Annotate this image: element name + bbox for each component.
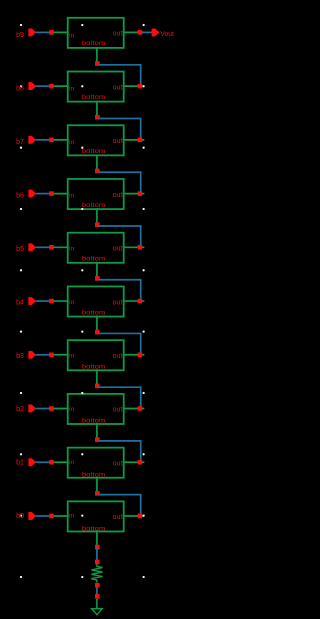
svg-text:b1: b1 xyxy=(16,459,24,467)
junction U8.out xyxy=(138,406,143,411)
wire b8 to U2.in xyxy=(36,85,52,87)
wire U10.bottom to resistor R1 xyxy=(96,547,98,562)
lead U1.in xyxy=(52,31,69,33)
svg-text:in: in xyxy=(69,139,75,146)
svg-text:b4: b4 xyxy=(16,298,24,306)
input port arrow b4 xyxy=(29,297,36,304)
subcircuit block U4 (ladder cell) xyxy=(68,179,124,209)
junction U9.in xyxy=(49,460,54,465)
lead U7.in xyxy=(52,354,69,356)
junction U2.in xyxy=(49,84,54,89)
lead U9.bottom xyxy=(96,477,98,493)
lead U4.out xyxy=(123,193,145,195)
wire b3 to U7.in xyxy=(36,354,52,356)
junction U4.in xyxy=(49,191,54,196)
lead U6.bottom xyxy=(96,316,98,332)
lead U2.bottom xyxy=(96,101,98,117)
lead U5.bottom xyxy=(96,262,98,278)
lead U7.out xyxy=(123,354,145,356)
junction U4.bottom xyxy=(95,222,100,227)
svg-text:in: in xyxy=(69,86,75,93)
svg-text:bottom: bottom xyxy=(82,202,106,209)
lead U1.bottom xyxy=(96,47,98,63)
lead U5.in xyxy=(52,246,69,248)
lead U3.in xyxy=(52,139,69,141)
lead U8.bottom xyxy=(96,423,98,439)
svg-text:in: in xyxy=(69,32,75,39)
junction U10.in xyxy=(49,514,54,519)
junction U7.bottom xyxy=(95,384,100,389)
junction U6.bottom xyxy=(95,330,100,335)
output port arrow Vout xyxy=(152,29,159,36)
svg-text:in: in xyxy=(69,246,75,253)
junction R1.top xyxy=(95,560,100,565)
junction U7.out xyxy=(138,352,143,357)
svg-text:bottom: bottom xyxy=(82,471,106,478)
input port arrow b6 xyxy=(29,190,36,197)
junction U1.in xyxy=(49,30,54,35)
input port arrow b1 xyxy=(29,459,36,466)
junction U6.out xyxy=(138,299,143,304)
subcircuit block U5 (ladder cell) xyxy=(68,233,124,263)
svg-text:out: out xyxy=(113,299,123,306)
junction U6.in xyxy=(49,299,54,304)
svg-text:b7: b7 xyxy=(16,138,24,146)
svg-text:in: in xyxy=(69,192,75,199)
svg-text:bottom: bottom xyxy=(82,417,106,424)
lead U4.in xyxy=(52,193,69,195)
lead U6.in xyxy=(52,300,69,302)
wire b2 to U8.in xyxy=(36,408,52,410)
subcircuit block U3 (ladder cell) xyxy=(68,125,124,155)
svg-text:in: in xyxy=(69,299,75,306)
svg-text:in: in xyxy=(69,513,75,520)
lead U10.out xyxy=(123,515,145,517)
svg-text:bottom: bottom xyxy=(82,94,106,101)
svg-text:b3: b3 xyxy=(16,352,24,360)
junction U9.bottom xyxy=(95,491,100,496)
wire U4.bottom to U5.out xyxy=(98,226,140,247)
svg-text:out: out xyxy=(113,138,123,145)
svg-text:b6: b6 xyxy=(16,191,24,199)
wire b1 to U9.in xyxy=(36,461,52,463)
svg-text:out: out xyxy=(113,407,123,414)
junction U8.bottom xyxy=(95,437,100,442)
subcircuit block U9 (ladder cell) xyxy=(68,448,124,478)
lead U2.in xyxy=(52,85,69,87)
junction U3.bottom xyxy=(95,169,100,174)
wire b4 to U6.in xyxy=(36,300,52,302)
svg-text:in: in xyxy=(69,406,75,413)
svg-text:out: out xyxy=(113,84,123,91)
wire b0 to U10.in xyxy=(36,515,52,517)
junction U7.in xyxy=(49,352,54,357)
lead U3.bottom xyxy=(96,154,98,170)
junction U10.out xyxy=(138,514,143,519)
svg-text:bottom: bottom xyxy=(82,256,106,263)
input port arrow b0 xyxy=(29,512,36,519)
svg-text:bottom: bottom xyxy=(82,364,106,371)
subcircuit block U1 (ladder cell) xyxy=(68,18,124,48)
input port arrow b5 xyxy=(29,244,36,251)
junction U5.out xyxy=(138,245,143,250)
wire U1.out to Vout port xyxy=(142,31,152,33)
wire U8.bottom to U9.out xyxy=(98,441,140,462)
svg-text:b9: b9 xyxy=(16,31,24,39)
ground xyxy=(92,599,102,615)
svg-text:out: out xyxy=(113,192,123,199)
wire b5 to U5.in xyxy=(36,246,52,248)
svg-text:bottom: bottom xyxy=(82,40,106,47)
lead U8.out xyxy=(123,408,145,410)
lead U3.out xyxy=(123,139,145,141)
svg-text:b0: b0 xyxy=(16,512,24,520)
input port arrow b2 xyxy=(29,405,36,412)
wire U6.bottom to U7.out xyxy=(98,333,140,354)
subcircuit block U6 (ladder cell) xyxy=(68,286,124,316)
wire U5.bottom to U6.out xyxy=(98,280,140,301)
svg-text:bottom: bottom xyxy=(82,525,106,532)
lead U10.in xyxy=(52,515,69,517)
svg-text:out: out xyxy=(113,514,123,521)
wire b9 to U1.in xyxy=(36,31,52,33)
lead U10.bottom xyxy=(96,530,98,546)
lead U6.out xyxy=(123,300,145,302)
lead U1.out xyxy=(123,31,145,33)
wire U1.bottom to U2.out xyxy=(98,65,140,86)
junction U5.bottom xyxy=(95,276,100,281)
lead U8.in xyxy=(52,408,69,410)
junction U3.in xyxy=(49,138,54,143)
junction ground xyxy=(95,594,100,599)
junction U8.in xyxy=(49,406,54,411)
svg-text:Vout: Vout xyxy=(160,30,174,38)
svg-text:in: in xyxy=(69,352,75,359)
lead U5.out xyxy=(123,246,145,248)
wire b7 to U3.in xyxy=(36,139,52,141)
junction R1.bottom xyxy=(95,583,100,588)
junction U10.bottom xyxy=(95,545,100,550)
junction U5.in xyxy=(49,245,54,250)
svg-text:out: out xyxy=(113,246,123,253)
input port arrow b3 xyxy=(29,351,36,358)
svg-text:out: out xyxy=(113,353,123,360)
wire U7.bottom to U8.out xyxy=(98,387,140,408)
subcircuit block U7 (ladder cell) xyxy=(68,340,124,370)
wire R1 to ground xyxy=(96,587,98,596)
lead U7.bottom xyxy=(96,369,98,385)
svg-text:out: out xyxy=(113,31,123,38)
lead U2.out xyxy=(123,85,145,87)
junction U1.bottom xyxy=(95,61,100,66)
svg-text:bottom: bottom xyxy=(82,148,106,155)
svg-text:b2: b2 xyxy=(16,405,24,413)
wire U2.bottom to U3.out xyxy=(98,119,140,140)
wire b6 to U4.in xyxy=(36,193,52,195)
junction U1.out xyxy=(138,30,143,35)
junction U3.out xyxy=(138,138,143,143)
resistor R1 xyxy=(91,564,102,582)
svg-text:in: in xyxy=(69,459,75,466)
lead U9.out xyxy=(123,461,145,463)
junction U2.out xyxy=(138,84,143,89)
lead U9.in xyxy=(52,461,69,463)
lead U4.bottom xyxy=(96,208,98,224)
svg-text:out: out xyxy=(113,460,123,467)
input port arrow b9 xyxy=(29,29,36,36)
input port arrow b8 xyxy=(29,83,36,90)
subcircuit block U10 (ladder cell) xyxy=(68,501,124,531)
input port arrow b7 xyxy=(29,136,36,143)
junction U9.out xyxy=(138,460,143,465)
svg-text:bottom: bottom xyxy=(82,310,106,317)
subcircuit block U8 (ladder cell) xyxy=(68,394,124,424)
svg-text:b8: b8 xyxy=(16,84,24,92)
subcircuit block U2 (ladder cell) xyxy=(68,72,124,102)
svg-text:b5: b5 xyxy=(16,245,24,253)
wire U9.bottom to U10.out xyxy=(98,495,140,516)
wire U3.bottom to U4.out xyxy=(98,172,140,193)
junction U4.out xyxy=(138,191,143,196)
junction U2.bottom xyxy=(95,115,100,120)
